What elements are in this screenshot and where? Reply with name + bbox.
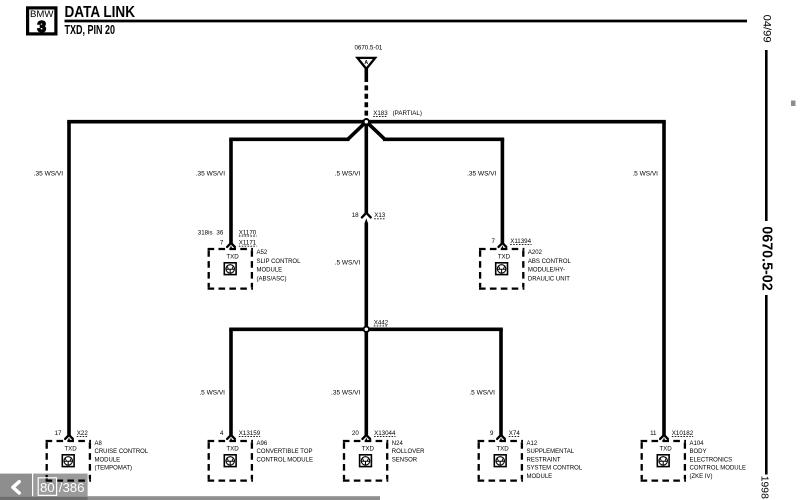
svg-text:.35 WS/VI: .35 WS/VI bbox=[467, 171, 496, 178]
svg-text:7: 7 bbox=[220, 240, 224, 247]
svg-text:(ABS/ASC): (ABS/ASC) bbox=[257, 276, 287, 282]
svg-text:SUPPLEMENTAL: SUPPLEMENTAL bbox=[527, 449, 575, 455]
svg-text:BODY: BODY bbox=[690, 449, 707, 455]
svg-text:04/99: 04/99 bbox=[760, 15, 772, 43]
svg-text:X1170: X1170 bbox=[239, 229, 257, 236]
svg-text:36: 36 bbox=[216, 229, 223, 236]
svg-text:ROLLOVER: ROLLOVER bbox=[392, 449, 425, 455]
svg-text:TXD: TXD bbox=[64, 445, 77, 452]
svg-text:X74: X74 bbox=[509, 430, 521, 437]
svg-text:X13159: X13159 bbox=[239, 430, 261, 437]
svg-text:17: 17 bbox=[55, 430, 62, 437]
svg-text:A52: A52 bbox=[257, 250, 268, 256]
svg-text:CONTROL MODULE: CONTROL MODULE bbox=[690, 466, 746, 472]
svg-text:A8: A8 bbox=[95, 441, 103, 447]
svg-text:X13044: X13044 bbox=[374, 430, 396, 437]
svg-text:SENSOR: SENSOR bbox=[392, 457, 418, 463]
svg-text:SYSTEM CONTROL: SYSTEM CONTROL bbox=[527, 466, 583, 472]
svg-text:TXD, PIN 20: TXD, PIN 20 bbox=[65, 22, 116, 37]
svg-text:80: 80 bbox=[40, 480, 55, 495]
svg-text:MODULE: MODULE bbox=[527, 474, 553, 480]
svg-text:X22: X22 bbox=[77, 430, 89, 437]
svg-text:ABS CONTROL: ABS CONTROL bbox=[528, 259, 572, 265]
svg-text:MODULE: MODULE bbox=[95, 457, 121, 463]
svg-text:4: 4 bbox=[220, 430, 224, 437]
svg-text:/386: /386 bbox=[59, 480, 85, 495]
svg-text:MODULE: MODULE bbox=[257, 268, 283, 274]
svg-text:1998: 1998 bbox=[759, 476, 770, 499]
svg-text:7: 7 bbox=[491, 238, 495, 245]
svg-text:9: 9 bbox=[490, 430, 494, 437]
svg-text:DRAULIC UNIT: DRAULIC UNIT bbox=[528, 276, 570, 282]
svg-text:(TEMPOMAT): (TEMPOMAT) bbox=[95, 466, 133, 472]
svg-text:0670.5-02: 0670.5-02 bbox=[759, 226, 775, 290]
svg-text:A12: A12 bbox=[527, 441, 538, 447]
svg-text:(ZKE IV): (ZKE IV) bbox=[690, 474, 713, 480]
svg-text:.35 WS/VI: .35 WS/VI bbox=[331, 389, 360, 396]
svg-text:A104: A104 bbox=[690, 441, 705, 447]
svg-text:DATA LINK: DATA LINK bbox=[65, 4, 136, 21]
svg-text:CONTROL MODULE: CONTROL MODULE bbox=[257, 457, 313, 463]
svg-text:ELECTRONICS: ELECTRONICS bbox=[690, 457, 733, 463]
svg-text:TXD: TXD bbox=[226, 445, 239, 452]
svg-text:.5 WS/VI: .5 WS/VI bbox=[335, 259, 361, 266]
svg-text:.5 WS/VI: .5 WS/VI bbox=[199, 389, 225, 396]
svg-text:.35 WS/VI: .35 WS/VI bbox=[34, 171, 63, 178]
svg-text:N24: N24 bbox=[392, 441, 404, 447]
svg-text:TXD: TXD bbox=[496, 445, 509, 452]
svg-text:RESTRAINT: RESTRAINT bbox=[527, 457, 561, 463]
svg-text:TXD: TXD bbox=[498, 253, 511, 260]
svg-text:X183: X183 bbox=[373, 110, 388, 117]
svg-text:CRUISE CONTROL: CRUISE CONTROL bbox=[95, 449, 149, 455]
svg-text:A202: A202 bbox=[528, 250, 543, 256]
svg-text:CONVERTIBLE TOP: CONVERTIBLE TOP bbox=[257, 449, 313, 455]
svg-text:318is: 318is bbox=[198, 229, 213, 236]
svg-text:X11394: X11394 bbox=[510, 238, 531, 245]
svg-text:20: 20 bbox=[352, 430, 359, 437]
svg-text:MODULE/HY-: MODULE/HY- bbox=[528, 268, 565, 274]
svg-text:0670.5-01: 0670.5-01 bbox=[354, 45, 382, 52]
svg-text:18: 18 bbox=[352, 212, 359, 219]
svg-text:A96: A96 bbox=[257, 441, 268, 447]
svg-text:X1171: X1171 bbox=[239, 240, 257, 247]
svg-text:.35 WS/VI: .35 WS/VI bbox=[196, 171, 225, 178]
svg-text:A: A bbox=[364, 60, 368, 66]
svg-text:X13: X13 bbox=[374, 212, 386, 219]
svg-text:TXD: TXD bbox=[659, 445, 672, 452]
svg-text:SLIP CONTROL: SLIP CONTROL bbox=[257, 259, 302, 265]
svg-text:.5 WS/VI: .5 WS/VI bbox=[469, 389, 495, 396]
svg-text:X10182: X10182 bbox=[672, 430, 694, 437]
svg-text:3: 3 bbox=[37, 19, 46, 36]
svg-text:X442: X442 bbox=[374, 319, 389, 326]
svg-text:(PARTIAL): (PARTIAL) bbox=[393, 110, 422, 117]
svg-text:.5 WS/VI: .5 WS/VI bbox=[632, 171, 658, 178]
svg-text:TXD: TXD bbox=[362, 445, 375, 452]
svg-text:TXD: TXD bbox=[226, 253, 239, 260]
svg-text:11: 11 bbox=[650, 430, 657, 437]
svg-text:.5 WS/VI: .5 WS/VI bbox=[335, 171, 361, 178]
